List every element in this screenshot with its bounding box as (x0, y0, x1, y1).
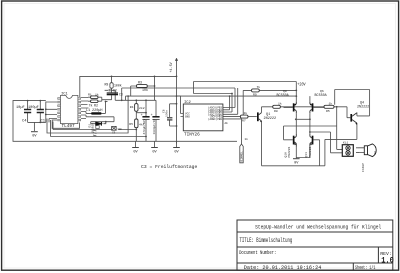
svg-text:StepUp-Wandler und Wechselspan: StepUp-Wandler und Wechselspannung für K… (255, 223, 382, 230)
svg-text:R9: R9 (105, 83, 109, 87)
svg-text:R8: R8 (274, 109, 278, 113)
svg-text:1k: 1k (95, 92, 99, 96)
svg-text:BIMMEL: BIMMEL (241, 151, 244, 162)
svg-text:C3: C3 (119, 93, 123, 97)
svg-text:1k: 1k (278, 101, 282, 105)
svg-text:BC550A: BC550A (277, 94, 290, 98)
svg-text:Date: 20.01.2011 19:16:24: Date: 20.01.2011 19:16:24 (244, 265, 321, 271)
svg-text:IC1: IC1 (61, 92, 69, 96)
svg-text:R5: R5 (129, 122, 133, 126)
svg-text:1k: 1k (329, 101, 333, 105)
svg-text:KL1: KL1 (343, 142, 348, 145)
svg-text:8Ω: 8Ω (374, 151, 377, 155)
svg-text:1N5819: 1N5819 (91, 123, 94, 134)
svg-text:+20V: +20V (297, 82, 306, 87)
svg-text:R4: R4 (130, 105, 134, 109)
svg-text:AG: AG (225, 122, 229, 125)
svg-text:100k: 100k (114, 84, 122, 88)
svg-text:L1: L1 (86, 109, 90, 113)
svg-text:2k2: 2k2 (139, 106, 145, 110)
svg-text:R2: R2 (94, 103, 98, 107)
svg-text:TINY26: TINY26 (184, 132, 200, 137)
svg-text:BC550A: BC550A (315, 94, 328, 98)
svg-text:F440P: F440P (362, 163, 365, 172)
svg-text:Q11: Q11 (305, 152, 308, 158)
svg-text:R5: R5 (326, 109, 330, 113)
svg-text:R3: R3 (138, 81, 142, 85)
svg-text:10µF: 10µF (16, 106, 25, 110)
svg-text:C2: C2 (113, 89, 117, 93)
svg-text:1k: 1k (245, 137, 249, 141)
svg-text:Q10: Q10 (285, 152, 288, 158)
svg-text:TITLE: Bimmelschaltung: TITLE: Bimmelschaltung (240, 237, 293, 244)
svg-text:(AREF)PB0: (AREF)PB0 (208, 117, 222, 121)
svg-text:+: + (141, 114, 143, 118)
svg-text:C5: C5 (112, 131, 116, 134)
svg-text:Sheet: 1/1: Sheet: 1/1 (355, 265, 375, 271)
svg-text:+4.5V: +4.5V (170, 61, 174, 72)
svg-text:GND: GND (185, 116, 190, 119)
svg-text:IC2: IC2 (184, 101, 192, 105)
svg-text:Q8: Q8 (283, 89, 287, 93)
svg-text:+: + (151, 114, 153, 118)
svg-text:2N2222: 2N2222 (264, 117, 277, 121)
svg-text:C6: C6 (162, 109, 165, 113)
svg-text:10n: 10n (117, 128, 122, 131)
svg-text:1000µF/16: 1000µF/16 (152, 119, 156, 135)
svg-text:1.0: 1.0 (381, 256, 394, 265)
svg-text:PN2222: PN2222 (309, 146, 312, 157)
svg-text:10k: 10k (142, 88, 148, 92)
svg-text:7k: 7k (257, 85, 261, 89)
svg-text:470µF/50V: 470µF/50V (142, 119, 146, 135)
svg-text:7k: 7k (89, 103, 93, 107)
svg-text:TL497: TL497 (62, 124, 76, 129)
svg-text:100n: 100n (165, 110, 168, 117)
svg-text:C1: C1 (41, 120, 46, 124)
svg-text:C3 = Freiluftmontage: C3 = Freiluftmontage (141, 164, 197, 170)
svg-text:1k: 1k (244, 111, 248, 115)
svg-text:220µH: 220µH (92, 109, 103, 113)
svg-text:R9: R9 (253, 93, 257, 97)
svg-text:Q6: Q6 (320, 89, 324, 93)
svg-text:2N2222: 2N2222 (357, 105, 369, 109)
svg-text:R1: R1 (88, 92, 92, 96)
svg-text:R7: R7 (242, 119, 246, 123)
svg-text:C4: C4 (22, 120, 27, 124)
svg-text:100µF: 100µF (28, 106, 39, 110)
svg-text:Document Number:: Document Number: (239, 250, 276, 256)
svg-text:PN2222: PN2222 (288, 146, 291, 157)
